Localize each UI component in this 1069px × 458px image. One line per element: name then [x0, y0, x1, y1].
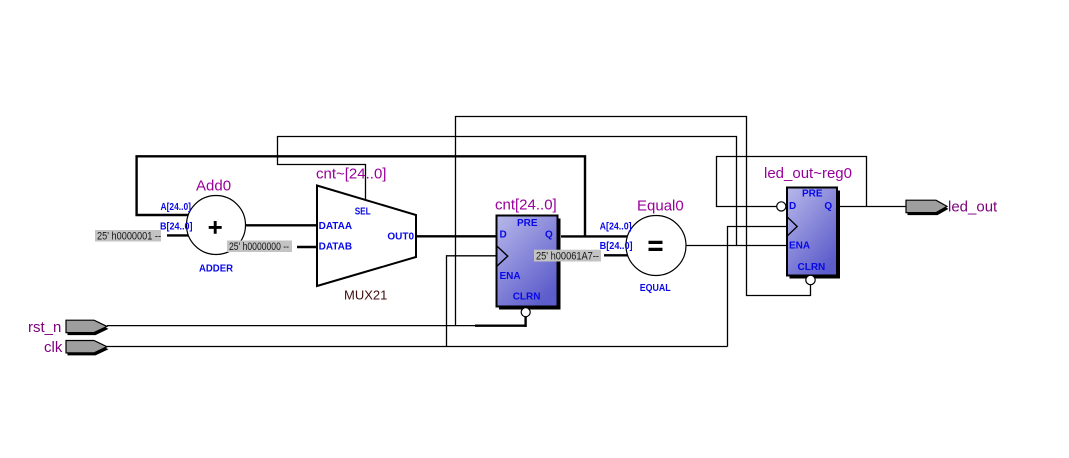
svg-text:25' h0000001 --: 25' h0000001 -- — [97, 231, 161, 243]
svg-text:25' h0000000 --: 25' h0000000 -- — [229, 241, 289, 253]
svg-text:OUT0: OUT0 — [387, 231, 414, 242]
svg-text:D: D — [500, 230, 507, 241]
svg-text:Equal0: Equal0 — [637, 198, 684, 215]
svg-text:DATAA: DATAA — [319, 221, 353, 232]
svg-text:cnt~[24..0]: cnt~[24..0] — [316, 166, 386, 183]
svg-text:EQUAL: EQUAL — [640, 283, 671, 294]
svg-text:Q: Q — [824, 201, 832, 212]
svg-text:ENA: ENA — [789, 241, 810, 252]
svg-text:Q: Q — [545, 230, 553, 241]
svg-text:B[24..0]: B[24..0] — [600, 241, 633, 252]
svg-text:CLRN: CLRN — [798, 262, 826, 273]
svg-text:cnt[24..0]: cnt[24..0] — [495, 197, 557, 214]
svg-text:ADDER: ADDER — [199, 264, 234, 275]
svg-text:PRE: PRE — [802, 189, 823, 200]
svg-text:clk: clk — [44, 339, 63, 356]
svg-text:led_out: led_out — [948, 199, 998, 216]
svg-text:CLRN: CLRN — [513, 292, 541, 303]
svg-text:SEL: SEL — [355, 207, 371, 218]
svg-text:MUX21: MUX21 — [344, 288, 387, 303]
svg-text:led_out~reg0: led_out~reg0 — [764, 165, 852, 182]
svg-text:ENA: ENA — [500, 271, 521, 282]
svg-text:A[24..0]: A[24..0] — [600, 221, 632, 232]
svg-text:25' h00061A7--: 25' h00061A7-- — [536, 250, 599, 262]
svg-text:PRE: PRE — [517, 218, 538, 229]
svg-text:D: D — [789, 201, 796, 212]
svg-text:rst_n: rst_n — [28, 319, 61, 336]
svg-text:B[24..0]: B[24..0] — [160, 222, 193, 233]
svg-text:Add0: Add0 — [196, 178, 231, 195]
svg-text:DATAB: DATAB — [319, 241, 353, 252]
svg-text:A[24..0]: A[24..0] — [161, 202, 192, 213]
